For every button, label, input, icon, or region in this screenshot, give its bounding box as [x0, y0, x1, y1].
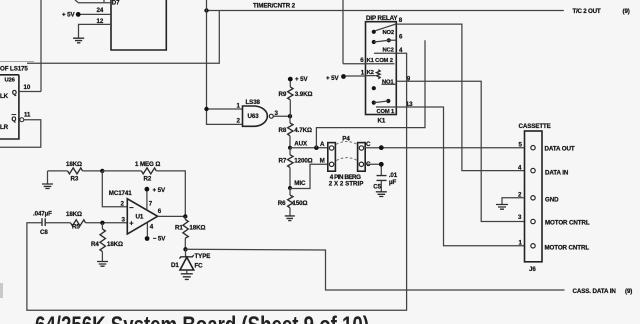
svg-text:U26: U26	[5, 78, 16, 84]
svg-text:6: 6	[360, 57, 364, 64]
svg-text:C5: C5	[373, 184, 381, 191]
svg-text:6: 6	[399, 33, 403, 40]
svg-text:18KΩ: 18KΩ	[66, 161, 82, 168]
svg-text:NC2: NC2	[383, 47, 394, 53]
svg-text:11: 11	[24, 112, 31, 119]
svg-text:MIC: MIC	[294, 180, 306, 187]
svg-text:7: 7	[149, 201, 153, 208]
svg-text:DIP RELAY: DIP RELAY	[366, 15, 398, 22]
svg-text:R1: R1	[175, 224, 183, 231]
svg-text:C8: C8	[40, 229, 48, 236]
svg-text:LR: LR	[0, 124, 9, 131]
svg-text:CASSETTE: CASSETTE	[519, 123, 551, 130]
svg-text:10: 10	[24, 84, 31, 91]
svg-text:+: +	[129, 218, 134, 227]
svg-text:LS38: LS38	[246, 99, 261, 106]
svg-text:4: 4	[150, 223, 154, 230]
svg-text:MOTOR CNTRL: MOTOR CNTRL	[545, 219, 590, 226]
svg-text:R3: R3	[71, 176, 79, 183]
svg-text:D7: D7	[112, 0, 120, 7]
svg-text:.01: .01	[389, 172, 398, 179]
svg-text:1200Ω: 1200Ω	[294, 157, 312, 164]
svg-text:3.9KΩ: 3.9KΩ	[295, 91, 313, 98]
svg-text:− 5V: − 5V	[153, 236, 166, 243]
svg-text:(9): (9)	[625, 288, 632, 295]
svg-text:COM 1: COM 1	[377, 109, 396, 115]
svg-text:M: M	[320, 158, 325, 165]
svg-text:Q: Q	[12, 116, 17, 123]
svg-text:R9: R9	[279, 91, 287, 98]
svg-text:+ 5V: + 5V	[153, 187, 166, 194]
svg-text:18KΩ: 18KΩ	[107, 241, 123, 248]
svg-text:CASS. DATA IN: CASS. DATA IN	[573, 288, 617, 295]
svg-text:1: 1	[361, 69, 365, 76]
svg-text:+ 5V: + 5V	[62, 12, 75, 19]
svg-text:24: 24	[97, 7, 104, 14]
svg-text:2 X 2 STRIP: 2 X 2 STRIP	[329, 181, 364, 188]
svg-text:DATA OUT: DATA OUT	[545, 145, 575, 152]
svg-text:LK: LK	[0, 93, 9, 100]
svg-text:K1: K1	[378, 117, 386, 124]
svg-text:R4: R4	[91, 241, 99, 248]
svg-text:12: 12	[97, 18, 104, 25]
svg-text:µF: µF	[389, 179, 396, 186]
svg-text:18KΩ: 18KΩ	[189, 224, 205, 231]
svg-text:150Ω: 150Ω	[293, 200, 308, 207]
svg-text:D1: D1	[171, 262, 179, 269]
svg-text:NO2: NO2	[383, 30, 394, 36]
svg-text:+ 5V: + 5V	[326, 75, 339, 82]
svg-text:8: 8	[399, 17, 403, 24]
svg-text:FC: FC	[195, 262, 204, 269]
svg-text:R7: R7	[279, 157, 287, 164]
svg-text:MOTOR CNTRL: MOTOR CNTRL	[545, 244, 590, 251]
svg-text:OF LS175: OF LS175	[0, 66, 28, 73]
svg-text:(9): (9)	[623, 8, 630, 15]
svg-text:18KΩ: 18KΩ	[66, 211, 82, 218]
svg-text:A: A	[320, 141, 325, 148]
svg-text:.047µF: .047µF	[33, 210, 52, 217]
svg-text:U63: U63	[248, 113, 260, 120]
svg-text:2: 2	[237, 118, 241, 125]
svg-text:TYPE: TYPE	[195, 253, 211, 260]
svg-text:6: 6	[158, 208, 162, 215]
svg-text:+ 5V: + 5V	[295, 76, 308, 83]
svg-text:R8: R8	[279, 127, 287, 134]
svg-text:4.7KΩ: 4.7KΩ	[294, 127, 312, 134]
svg-text:C: C	[366, 141, 371, 148]
svg-text:T/C 2 OUT: T/C 2 OUT	[573, 8, 601, 15]
svg-text:R6: R6	[278, 200, 286, 207]
svg-text:64/256K System Board (Sheet 9: 64/256K System Board (Sheet 9 of 10)	[35, 312, 369, 324]
svg-text:R2: R2	[144, 176, 152, 183]
svg-text:MC1741: MC1741	[109, 190, 132, 197]
svg-text:TIMER/CNTR 2: TIMER/CNTR 2	[253, 3, 296, 10]
svg-text:AUX: AUX	[294, 141, 308, 148]
svg-text:3: 3	[518, 214, 522, 221]
svg-text:U1: U1	[136, 214, 144, 221]
svg-text:R5: R5	[72, 224, 80, 231]
svg-text:DATA IN: DATA IN	[545, 169, 569, 176]
svg-text:GND: GND	[545, 196, 559, 203]
svg-text:−: −	[129, 203, 134, 212]
svg-text:1 MEG Ω: 1 MEG Ω	[135, 161, 160, 168]
svg-text:J6: J6	[529, 266, 536, 273]
svg-text:Q: Q	[12, 89, 17, 96]
